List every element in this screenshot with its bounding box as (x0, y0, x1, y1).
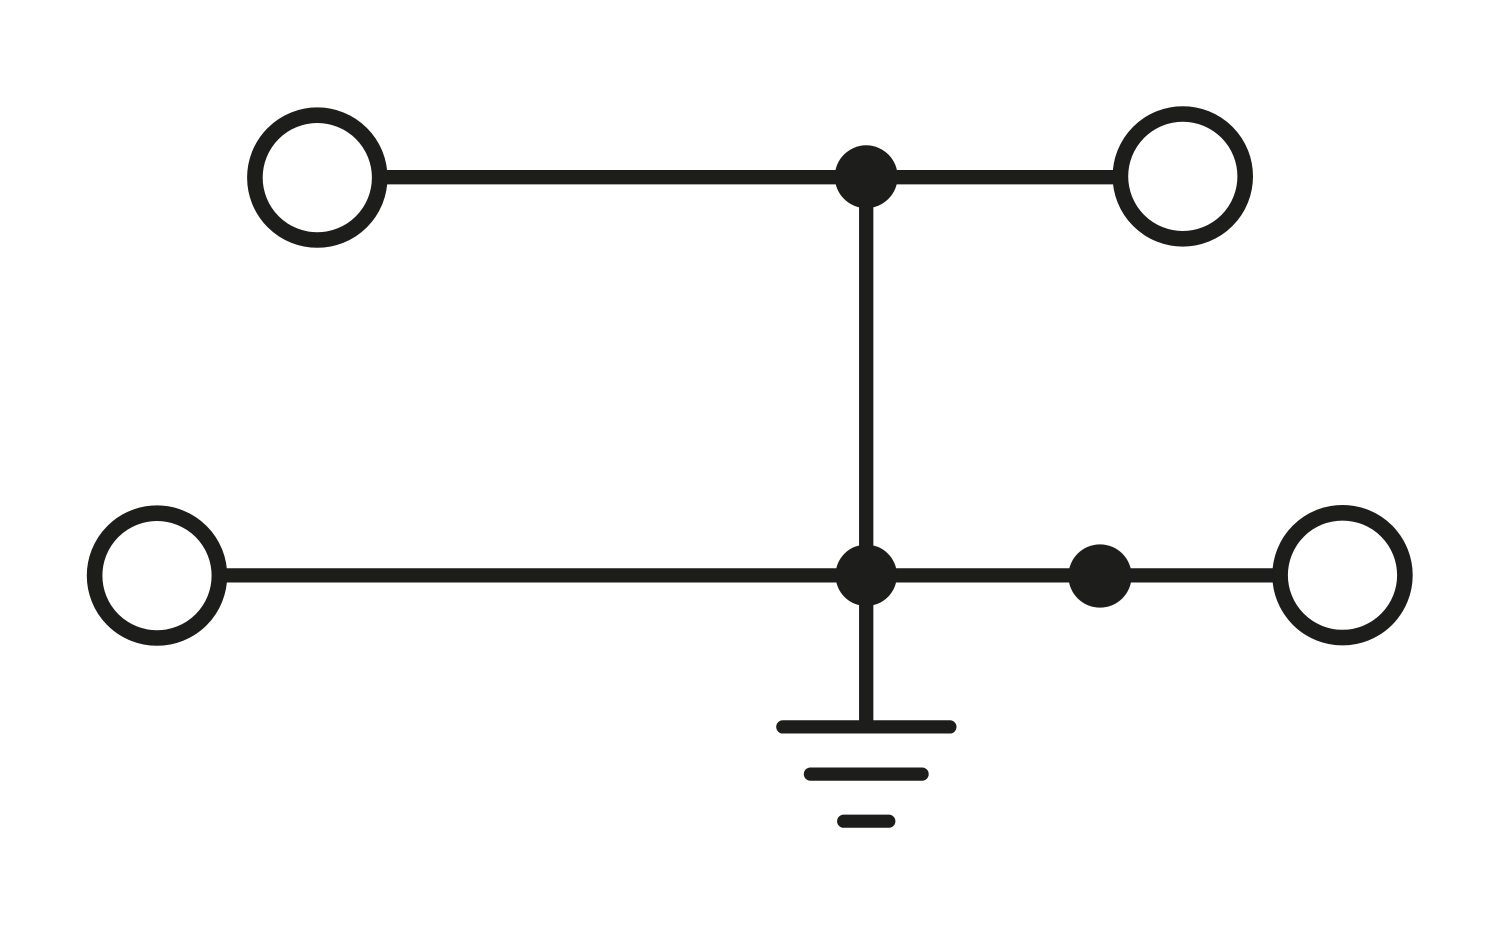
ground bar 2 (810, 767, 922, 780)
node junction bottom (836, 545, 897, 606)
node junction top (835, 145, 898, 208)
wire top horizontal (386, 170, 1114, 184)
ground bar 3 (844, 815, 889, 828)
wire vertical bridge (859, 177, 873, 576)
terminal circle top-left (255, 115, 380, 240)
terminal circle top-right (1120, 114, 1245, 239)
wire ground stem (859, 575, 873, 727)
terminal circle bottom-right (1280, 513, 1405, 638)
ground bar 1 (783, 720, 950, 733)
terminal circle bottom-left (95, 513, 220, 638)
node dot right (1068, 544, 1131, 607)
wire bottom horizontal (226, 568, 1273, 582)
